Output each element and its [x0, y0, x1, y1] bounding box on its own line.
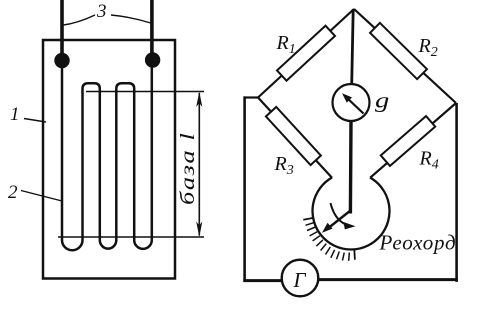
wire: apex to right corner (R2 branch) — [354, 9, 456, 103]
wire: right terminal lead (thick) — [150, 0, 154, 62]
wire: galvanometer to rheochord wiper — [349, 121, 353, 214]
wire: source to bottom right — [318, 278, 458, 281]
galvanometer needle — [347, 98, 364, 114]
leader line from 3 to right lead — [111, 15, 153, 24]
adjustment arrowhead — [344, 222, 356, 229]
leader line from 1 to rectangle edge — [24, 119, 46, 123]
wire: left terminal lead (thick) — [60, 0, 64, 62]
svg-text:g: g — [375, 88, 389, 113]
galvanometer U1 circle — [333, 84, 370, 121]
wire: bottom left to source — [243, 279, 283, 282]
wiper arrowhead — [322, 223, 333, 233]
dimension line top (base l upper extension) — [86, 91, 204, 93]
wire: left vertical edge — [243, 96, 246, 282]
resistor R1 — [277, 26, 335, 81]
svg-text:1: 1 — [10, 104, 20, 125]
svg-text:Г: Г — [293, 268, 307, 292]
rheochord circular element — [313, 178, 390, 250]
wire: serpentine measuring grid — [62, 0, 152, 250]
svg-text:Реохорд: Реохорд — [379, 231, 457, 255]
leader line from 3 to left lead — [64, 15, 96, 25]
resistor R2 — [370, 23, 427, 79]
dimension line bottom (base l lower extension) — [58, 236, 204, 238]
wire: apex to galvanometer — [352, 9, 354, 85]
leader line from 2 to grid — [21, 191, 62, 202]
svg-text:база l: база l — [177, 132, 199, 205]
dimension vertical line with arrows — [198, 93, 200, 236]
solder terminal dot left — [54, 53, 69, 68]
wire: left corner stub — [244, 96, 260, 98]
wire: right vertical edge — [455, 103, 458, 282]
resistor R4 — [381, 116, 435, 166]
rheochord wiper arm — [327, 211, 351, 230]
wire: apex to left corner (R1 branch) — [258, 9, 354, 98]
adjustment curved arrow — [331, 203, 347, 225]
resistor R3 — [266, 107, 321, 165]
rheochord scale ticks — [303, 218, 355, 261]
svg-text:2: 2 — [8, 182, 18, 203]
galvanometer needle arrowhead — [342, 93, 352, 102]
solder terminal dot right — [145, 52, 160, 67]
wire: left corner to rheochord left end (R3 branch) — [258, 98, 332, 178]
source Г circle — [282, 260, 319, 297]
dimension arrow up — [196, 92, 202, 108]
svg-text:3: 3 — [96, 1, 107, 22]
wire: right corner to rheochord right end (R4 branch) — [370, 103, 456, 178]
gauge backing rectangle (element 1) — [43, 40, 175, 279]
dimension arrow down — [196, 222, 202, 238]
